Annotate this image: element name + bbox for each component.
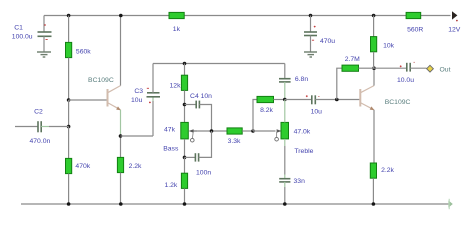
svg-text:10.0u: 10.0u	[397, 77, 414, 84]
node bottom rail / 2.2k Q1	[119, 202, 123, 206]
wire input line	[15, 126, 38, 128]
wire 470k bottom lead	[68, 174, 70, 204]
wire 100n left lead	[185, 156, 196, 158]
resistor 10k	[371, 37, 377, 52]
node top rail / 10k	[372, 14, 376, 18]
resistor 470k	[66, 158, 72, 173]
terminal 12V arrow	[452, 11, 457, 19]
wire bottom 0V rail	[21, 203, 448, 205]
transistor Q2 BC109C	[360, 86, 374, 111]
svg-text:47.0k: 47.0k	[294, 129, 311, 136]
potentiometer 47k Bass	[181, 122, 198, 142]
svg-text:560k: 560k	[76, 48, 91, 55]
wire out row	[374, 67, 407, 69]
resistor 2.7M	[342, 65, 359, 71]
svg-text:33n: 33n	[294, 178, 306, 185]
wire 1.2k bottom lead	[184, 188, 186, 204]
wire bus corner down to 6.8n	[284, 64, 286, 79]
wire treble pot bottom lead	[284, 139, 286, 146]
svg-text:10u: 10u	[131, 97, 143, 104]
wire Q1 collector to top rail	[120, 16, 122, 86]
node treble top junction	[283, 98, 287, 102]
resistor 2.2k (Q2 emitter)	[370, 163, 376, 178]
capacitor C4 10n	[196, 101, 199, 109]
node 3.3k / 8.2k junction	[251, 129, 255, 133]
node bottom rail / 470k	[67, 202, 71, 206]
node top rail / 560k column	[67, 14, 71, 18]
node Q1 base junction	[67, 98, 71, 102]
wire 8.2k left lead bend	[253, 100, 257, 132]
svg-text:Out: Out	[440, 67, 451, 74]
wire 3.3k right lead	[242, 130, 253, 132]
resistor 8.2k	[257, 96, 274, 102]
wire 33n bottom lead	[284, 182, 286, 187]
svg-text:10u: 10u	[311, 109, 323, 116]
wire 100n right lead to wiper column	[199, 131, 212, 157]
wire C3 bottom lead	[152, 101, 154, 136]
wire emitter junction to C3	[121, 135, 154, 137]
potentiometer 47.0k Treble	[275, 122, 289, 141]
wire junction to treble wiper	[253, 130, 276, 132]
capacitor C3 10u	[147, 88, 161, 103]
node C2 junction	[67, 125, 71, 129]
wire 10k top lead	[373, 16, 375, 37]
wire 10k bottom lead	[373, 52, 375, 68]
capacitor 100n	[195, 153, 198, 161]
svg-text:8.2k: 8.2k	[260, 107, 273, 114]
resistor 12k	[181, 75, 187, 90]
wire 10.0u to out terminal	[410, 67, 426, 69]
svg-text:470.0n: 470.0n	[30, 138, 51, 145]
wire 1.2k top lead	[184, 157, 186, 173]
node bottom rail / 1.2k	[183, 202, 187, 206]
resistor 2.2k (Q1 emitter)	[117, 157, 123, 172]
capacitor C1 100.0u	[38, 24, 52, 39]
ground below 470u	[304, 52, 317, 57]
wire Q2 emitter down	[373, 110, 375, 163]
wire Q1 emitter down	[120, 110, 122, 134]
resistor 3.3k	[227, 128, 242, 134]
wire Q2 collector up	[373, 68, 375, 85]
node Q2 base / 2.7M junction	[335, 98, 339, 102]
node wiper junction	[210, 129, 214, 133]
svg-text:C3: C3	[134, 88, 143, 95]
wire top +V rail	[44, 15, 451, 17]
capacitor 10.0u (output)	[400, 62, 415, 71]
svg-text:3.3k: 3.3k	[228, 138, 241, 145]
svg-text:2.2k: 2.2k	[129, 163, 142, 170]
svg-text:12V: 12V	[448, 26, 461, 33]
resistor 560k	[66, 42, 72, 57]
node bottom rail / 2.2k Q2	[372, 202, 376, 206]
wire 560k top lead	[68, 16, 70, 43]
svg-text:6.8n: 6.8n	[295, 76, 308, 83]
wire Q1 base wire	[69, 99, 107, 101]
capacitor 33n	[279, 179, 290, 182]
wire treble pot top lead	[284, 100, 286, 123]
svg-text:100n: 100n	[196, 169, 211, 176]
wire C1 bottom lead	[43, 36, 45, 52]
capacitor 470u	[304, 26, 317, 41]
wire C4 left lead	[185, 104, 197, 106]
svg-text:1k: 1k	[173, 26, 181, 33]
wire C1 top lead	[43, 16, 45, 33]
resistor 560R (supply)	[406, 12, 421, 18]
wire bass wiper to junction	[198, 130, 227, 132]
svg-text:470k: 470k	[75, 163, 90, 170]
svg-text:100.0u: 100.0u	[12, 34, 33, 41]
capacitor C2 470.0n	[38, 121, 41, 132]
svg-text:12k: 12k	[170, 83, 182, 90]
svg-text:2.2k: 2.2k	[381, 167, 394, 174]
svg-text:C4 10n: C4 10n	[190, 93, 212, 100]
svg-text:470u: 470u	[320, 38, 335, 45]
svg-text:10k: 10k	[383, 43, 395, 50]
resistor 1.2k	[181, 173, 187, 188]
node top rail / Q1 collector	[119, 14, 123, 18]
wire C2 node down to 470k	[68, 127, 70, 159]
capacitor 10u (coupling to Q2)	[306, 95, 320, 104]
wire 2.2k Q2 bottom lead	[372, 178, 374, 204]
wire 12k bottom to bass pot	[184, 90, 186, 122]
svg-text:C1: C1	[14, 24, 23, 31]
wire 10u to Q2 base	[315, 99, 359, 101]
wire 2.7M left lead from base node	[337, 68, 342, 99]
svg-text:47k: 47k	[164, 126, 176, 133]
wire 2.2k bottom lead	[120, 173, 122, 204]
resistor 1k (supply)	[169, 12, 184, 18]
node C4 left junction	[183, 103, 187, 107]
node 100n left junction	[183, 156, 187, 160]
svg-text:1.2k: 1.2k	[164, 182, 177, 189]
ground below C1	[37, 52, 51, 57]
svg-text:2.7M: 2.7M	[345, 56, 360, 63]
wire 470u top lead	[310, 16, 312, 33]
node bus / 12k	[183, 62, 187, 66]
wire 12k top lead	[184, 64, 186, 76]
wire tone bus	[153, 63, 285, 65]
transistor Q1 BC109C	[108, 86, 121, 111]
wire C4 right lead to wiper column	[199, 105, 211, 132]
terminal Out	[427, 65, 434, 72]
node top rail / 470u	[309, 14, 313, 18]
wire C2 to junction	[41, 126, 49, 128]
wire 470u bottom lead	[310, 36, 312, 52]
node collector / 10k / 2.7M / out junction	[372, 66, 376, 70]
svg-text:Bass: Bass	[163, 146, 179, 153]
capacitor 6.8n	[279, 79, 291, 82]
svg-text:560R: 560R	[407, 26, 423, 33]
node bottom rail / 33n	[283, 202, 287, 206]
svg-text:Treble: Treble	[294, 148, 313, 155]
svg-text:C2: C2	[34, 108, 43, 115]
wire treble node to 10u	[285, 99, 312, 101]
terminal 0V arrow (bottom right)	[448, 199, 452, 209]
wire 8.2k right lead	[274, 99, 285, 101]
wire C3 top lead to bus	[152, 64, 154, 93]
svg-text:BC109C: BC109C	[88, 77, 114, 84]
wire bass pot bottom lead	[184, 139, 186, 158]
wire 560k bottom to base node	[68, 58, 70, 100]
wire 6.8n bottom lead	[284, 82, 286, 100]
node Q1 emitter / C3 junction	[119, 134, 123, 138]
wire 2.7M right lead	[359, 67, 375, 69]
wire base node to C2 node	[68, 100, 70, 127]
svg-text:BC109C: BC109C	[385, 99, 411, 106]
